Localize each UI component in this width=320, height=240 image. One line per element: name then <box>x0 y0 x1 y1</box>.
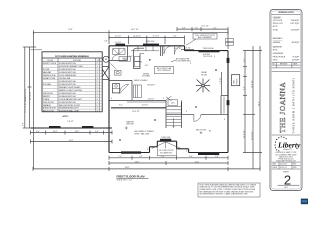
svg-text:FIREPL: FIREPL <box>237 78 239 84</box>
top exterior wall <box>109 45 185 47</box>
svg-text:CEILING FAN: CEILING FAN <box>59 77 71 80</box>
top wall jog <box>184 46 186 51</box>
svg-text:DWN: DWN <box>293 167 296 169</box>
left vertical dimension chains (wing) <box>23 32 43 169</box>
svg-text:PANTRY: PANTRY <box>43 95 51 98</box>
svg-text:EXTERIOR PENDANT LIGHT: EXTERIOR PENDANT LIGHT <box>59 65 84 68</box>
stoop pad <box>157 147 176 156</box>
svg-text:BED RM: BED RM <box>127 124 134 126</box>
svg-text:1: 1 <box>97 108 98 110</box>
svg-text:PENDANT LIGHT ISLAND: PENDANT LIGHT ISLAND <box>59 86 81 89</box>
svg-text:$: $ <box>186 111 187 113</box>
patio door note box <box>186 33 217 45</box>
svg-text:2'-5": 2'-5" <box>195 27 199 29</box>
bottom wall master section <box>109 152 150 154</box>
svg-text:14'-10 1/2": 14'-10 1/2" <box>133 36 142 38</box>
extension lines from wall corners <box>108 34 110 44</box>
svg-text:7'-0": 7'-0" <box>118 156 122 158</box>
svg-text:1 BULB BATHROOM LIGHT: 1 BULB BATHROOM LIGHT <box>59 98 83 101</box>
svg-text:FLUSH MOUNT LED: FLUSH MOUNT LED <box>59 72 77 74</box>
svg-text:AT 8" VERSION: AT 8" VERSION <box>158 69 172 72</box>
svg-text:6'-8": 6'-8" <box>161 156 165 158</box>
ceiling fan <box>196 79 210 93</box>
right exterior wall <box>227 51 229 153</box>
bottom wall bedroom section <box>189 152 228 154</box>
liberty homes logo <box>275 136 301 151</box>
svg-text:13'-11 1/2": 13'-11 1/2" <box>252 131 254 140</box>
laundry label box <box>119 57 131 62</box>
svg-text:2: 2 <box>97 84 98 86</box>
svg-text:6'-6": 6'-6" <box>215 156 219 158</box>
svg-text:CUSTOMER REQ: CUSTOMER REQ <box>176 60 191 62</box>
svg-text:THREE BDRM 2 BATH (TO BSMT): THREE BDRM 2 BATH (TO BSMT) <box>291 77 295 133</box>
svg-text:13'-8": 13'-8" <box>135 161 140 163</box>
svg-text:1: 1 <box>97 78 98 80</box>
svg-text:5 LED CHANDELIER: 5 LED CHANDELIER <box>59 74 77 77</box>
svg-text:MODERN BDRM LIGHT: MODERN BDRM LIGHT <box>59 108 79 110</box>
svg-text:FIXTURE: FIXTURE <box>73 60 81 62</box>
svg-text:2068: 2068 <box>123 60 127 62</box>
svg-text:FLUSH MOUNT LED: FLUSH MOUNT LED <box>59 84 77 86</box>
svg-text:8-15-2023: 8-15-2023 <box>280 163 287 165</box>
svg-text:$: $ <box>111 98 112 100</box>
inside dim with arrows <box>181 48 194 50</box>
svg-text:2'-8 1/2": 2'-8 1/2" <box>67 121 74 123</box>
svg-text:5'-2": 5'-2" <box>139 156 143 158</box>
svg-text:KITCHEN: KITCHEN <box>142 76 151 78</box>
svg-text:TOTAL: TOTAL <box>273 29 278 32</box>
range box <box>135 62 140 67</box>
svg-text:FLUSH MOUNT LED: FLUSH MOUNT LED <box>59 63 77 65</box>
svg-text:FLUSH MOUNT LED: FLUSH MOUNT LED <box>59 96 77 98</box>
stair side wall <box>181 102 183 114</box>
svg-text:6'-5": 6'-5" <box>173 36 177 38</box>
pantry walls <box>160 46 162 56</box>
svg-text:MATERIALS: MATERIALS <box>273 37 283 40</box>
svg-text:HALLWAY: HALLWAY <box>43 71 52 74</box>
svg-text:28'-8": 28'-8" <box>125 167 130 169</box>
svg-text:BASEMENT: BASEMENT <box>273 46 282 49</box>
svg-text:2: 2 <box>97 87 98 89</box>
window right wall lower <box>227 100 230 105</box>
svg-text:96 SQFT: 96 SQFT <box>293 56 300 58</box>
svg-text:2: 2 <box>97 105 98 107</box>
svg-text:ROOM: ROOM <box>201 75 207 77</box>
svg-text:3/16"=1'-0": 3/16"=1'-0" <box>280 167 287 169</box>
entry alcove <box>156 141 158 147</box>
window bottom wall (bedroom) <box>198 153 219 155</box>
sink box <box>135 56 140 61</box>
svg-text:ATTIC: ATTIC <box>273 25 279 28</box>
great room inner dim <box>220 72 222 95</box>
svg-text:WALK IN SHELF: WALK IN SHELF <box>134 79 149 82</box>
svg-text:8'-2": 8'-2" <box>119 105 123 107</box>
svg-text:15'-0": 15'-0" <box>195 161 200 163</box>
washer box <box>113 49 119 55</box>
svg-text:22'-8": 22'-8" <box>68 29 73 31</box>
svg-text:EXTERIOR WALL LIGHT: EXTERIOR WALL LIGHT <box>59 109 80 112</box>
svg-text:TUF DOOR: TUF DOOR <box>203 56 213 58</box>
top dimension chain right <box>177 26 228 31</box>
svg-text:4'-4": 4'-4" <box>36 131 40 133</box>
svg-text:$: $ <box>186 151 187 153</box>
svg-text:9'-1": 9'-1" <box>213 27 217 29</box>
svg-text:1ST FLOOR: 1ST FLOOR <box>273 20 283 22</box>
walk-in closet <box>134 85 142 98</box>
svg-text:1: 1 <box>97 90 98 92</box>
svg-text:16'-6": 16'-6" <box>75 131 80 133</box>
svg-text:GENERAL NOTES: GENERAL NOTES <box>278 11 294 14</box>
closet at bedroom right <box>220 96 222 115</box>
front door dark bar <box>160 139 171 142</box>
svg-text:ATTIC: ATTIC <box>63 115 69 118</box>
svg-text:Homes™: Homes™ <box>283 148 293 151</box>
top dimension chain secondary left <box>109 36 185 40</box>
window porch wall 1 <box>49 126 61 128</box>
notes rows <box>273 17 300 62</box>
svg-text:WALL MOUNTED FLUOR.: WALL MOUNTED FLUOR. <box>59 104 81 107</box>
svg-text:1: 1 <box>97 110 98 112</box>
foyer/bedroom wall <box>166 113 194 115</box>
laundry door arc <box>112 55 118 61</box>
svg-text:WATER CLOSET LIGHTING: WATER CLOSET LIGHTING <box>59 89 83 92</box>
kitchen upper cabinets <box>131 46 159 51</box>
svg-text:5'-1": 5'-1" <box>244 58 246 62</box>
svg-text:14'-0 1/2": 14'-0 1/2" <box>252 80 254 88</box>
svg-text:BED ROOM: BED ROOM <box>196 129 206 131</box>
svg-text:OPEN - RAIL SIDE: OPEN - RAIL SIDE <box>134 132 150 135</box>
window porch wall 2 <box>82 126 93 128</box>
stair shaft <box>166 96 182 128</box>
svg-text:28'-0": 28'-0" <box>259 101 261 106</box>
svg-text:5'-0": 5'-0" <box>129 56 133 58</box>
svg-text:UNFINISHED: UNFINISHED <box>273 53 284 55</box>
first floor plan label <box>117 174 149 181</box>
svg-text:1ST FLOOR LIGHTING SCHEDULE: 1ST FLOOR LIGHTING SCHEDULE <box>55 56 89 58</box>
svg-text:14'-4": 14'-4" <box>53 131 58 133</box>
svg-text:14'-9 1/2": 14'-9 1/2" <box>174 48 182 50</box>
left wall bump-out window box <box>101 67 110 80</box>
left exterior wall <box>108 46 110 153</box>
back door swing <box>175 46 183 54</box>
kitchen counter <box>134 48 145 68</box>
svg-text:8'-7 1/2": 8'-7 1/2" <box>153 36 160 38</box>
top exterior wall right part <box>185 50 229 52</box>
svg-text:FRONT PORCH: FRONT PORCH <box>273 56 286 58</box>
svg-text:4'-8": 4'-8" <box>145 65 149 67</box>
svg-text:FLEX ROOM: FLEX ROOM <box>43 102 54 104</box>
hall lower wall <box>111 107 166 109</box>
window top wall 1 <box>116 44 126 46</box>
laundry room walls <box>109 59 128 61</box>
svg-text:GARAGE: GARAGE <box>273 41 281 44</box>
electrical symbols speckle <box>111 56 225 153</box>
svg-text:TWIN 5050 A: TWIN 5050 A <box>203 47 214 50</box>
rows <box>42 64 102 109</box>
bath2 door swing <box>120 84 129 93</box>
svg-text:FLUSH MOUNT LED: FLUSH MOUNT LED <box>59 102 77 104</box>
svg-text:FOYER: FOYER <box>43 69 50 71</box>
svg-text:OF 2: OF 2 <box>284 187 288 189</box>
kitchen light dot <box>149 59 151 61</box>
dryer box <box>119 49 125 55</box>
svg-text:PHONE (608) 555-0155: PHONE (608) 555-0155 <box>278 159 294 161</box>
svg-text:1: 1 <box>97 102 98 104</box>
entry step right <box>177 148 189 150</box>
svg-text:ATTIC: ATTIC <box>273 49 279 52</box>
svg-text:9'-2": 9'-2" <box>244 86 246 90</box>
window bottom wall (master) <box>121 151 141 153</box>
svg-text:2: 2 <box>97 81 98 83</box>
info table <box>272 161 301 163</box>
svg-text:LIN SHLF: LIN SHLF <box>147 85 156 87</box>
svg-text:144 SQFT: 144 SQFT <box>292 60 300 62</box>
svg-text:$: $ <box>190 63 191 65</box>
svg-text:$: $ <box>214 56 215 58</box>
column dividers <box>57 58 59 112</box>
svg-text:AND CASEMENT: AND CASEMENT <box>198 36 213 39</box>
svg-text:FLUSH MOUNT LED: FLUSH MOUNT LED <box>59 93 77 95</box>
window right wall upper (at fireplace) <box>227 58 230 63</box>
svg-text:BACK DOOR: BACK DOOR <box>43 109 54 112</box>
svg-text:FINISHED: FINISHED <box>273 17 282 19</box>
svg-text:THE ROOM: THE ROOM <box>43 93 53 95</box>
svg-text:1: 1 <box>97 93 98 95</box>
svg-text:GARAGE: GARAGE <box>43 104 51 107</box>
svg-text:$: $ <box>224 119 225 121</box>
svg-text:FLUSH MOUNT LED: FLUSH MOUNT LED <box>59 69 77 71</box>
svg-text:4'-2": 4'-2" <box>182 27 186 29</box>
svg-text:1: 1 <box>97 69 98 71</box>
master light cross <box>125 127 128 130</box>
watermark logo bottom-right corner <box>301 199 308 205</box>
top dimension chain overall <box>34 29 229 34</box>
svg-text:7'-8 1/2": 7'-8 1/2" <box>220 77 222 84</box>
entry door swings <box>152 142 181 148</box>
svg-text:GREAT ROOM: GREAT ROOM <box>43 77 56 80</box>
right vertical dimension chains <box>243 46 262 169</box>
svg-text:FRONT PORCH: FRONT PORCH <box>43 63 57 65</box>
pantry door arc <box>164 46 172 54</box>
svg-text:BONUS ROOM: BONUS ROOM <box>43 108 56 110</box>
svg-text:2'-8": 2'-8" <box>23 122 25 126</box>
svg-text:TWIN 3050: TWIN 3050 <box>145 41 154 43</box>
svg-text:2'-8": 2'-8" <box>104 40 108 42</box>
svg-text:12'-3 1/2" AT GARAGE DOOR: 12'-3 1/2" AT GARAGE DOOR <box>24 88 27 113</box>
svg-text:ROOM: ROOM <box>47 60 53 62</box>
svg-text:4'-8 1/2": 4'-8 1/2" <box>142 105 149 107</box>
svg-text:16'-4 1/2": 16'-4 1/2" <box>201 26 209 28</box>
svg-text:13'-4 1/2": 13'-4 1/2" <box>244 130 246 138</box>
svg-text:SCALE: 3/16" = 1'-0": SCALE: 3/16" = 1'-0" <box>117 179 133 182</box>
utility circle symbol on left wall <box>103 56 109 62</box>
kitchen note box <box>155 66 174 73</box>
svg-text:$: $ <box>147 149 148 151</box>
svg-text:2: 2 <box>97 99 98 101</box>
svg-text:REVISION: REVISION <box>280 64 287 66</box>
svg-text:$: $ <box>163 98 164 100</box>
svg-text:2ND FLOOR: 2ND FLOOR <box>273 23 283 25</box>
hall upper wall <box>109 99 166 101</box>
svg-text:1: 1 <box>97 96 98 98</box>
svg-text:FIRST FLOOR PLAN: FIRST FLOOR PLAN <box>117 174 145 178</box>
svg-text:26'-10 1/2": 26'-10 1/2" <box>30 91 32 100</box>
svg-text:1248 SQFT: 1248 SQFT <box>291 20 300 22</box>
svg-text:6'-6": 6'-6" <box>189 156 193 158</box>
svg-text:REV: REV <box>293 163 296 165</box>
svg-text:LDG: LDG <box>171 102 175 104</box>
svg-text:48'-1 1/2": 48'-1 1/2" <box>131 29 139 31</box>
gas fireplace box outside right wall <box>232 75 240 86</box>
svg-text:1: 1 <box>97 66 98 68</box>
bedroom door arc <box>194 114 201 121</box>
svg-text:THE JOANNA: THE JOANNA <box>278 82 287 133</box>
porch/garage front wall <box>31 127 113 129</box>
pads outside top-right corner <box>226 39 234 42</box>
svg-text:KITCHEN: KITCHEN <box>43 84 52 86</box>
svg-text:16'-4 1/2": 16'-4 1/2" <box>132 111 140 113</box>
address lines <box>275 151 296 162</box>
svg-text:TWIN 2068: TWIN 2068 <box>161 137 170 139</box>
revision mini table <box>272 61 301 63</box>
svg-text:W STAIRS DN: W STAIRS DN <box>160 151 172 154</box>
window top wall 2 (kitchen) <box>143 44 159 46</box>
svg-text:4'-9 1/2": 4'-9 1/2" <box>184 48 191 50</box>
svg-text:LOFT SQFT: LOFT SQFT <box>290 23 299 25</box>
entry step left <box>149 147 151 153</box>
sliding patio door on top-right wall <box>199 50 220 52</box>
svg-text:FLUSH MOUNT LED: FLUSH MOUNT LED <box>59 81 77 83</box>
svg-text:4'-2 1/2": 4'-2 1/2" <box>115 36 122 38</box>
svg-text:1: 1 <box>97 75 98 77</box>
svg-text:DINING ROOM: DINING ROOM <box>43 75 56 77</box>
svg-text:4'-4": 4'-4" <box>95 131 99 133</box>
bath room wall <box>109 80 132 82</box>
svg-text:4'-8 1/2": 4'-8 1/2" <box>148 98 155 100</box>
svg-text:2: 2 <box>97 63 98 65</box>
svg-text:1: 1 <box>97 72 98 74</box>
bath vanity below wall <box>113 84 120 93</box>
bath2 right wall <box>131 81 133 101</box>
toilet fixture <box>115 70 122 75</box>
svg-text:1248 SQFT: 1248 SQFT <box>291 30 300 32</box>
row texts <box>43 63 98 113</box>
svg-text:484 SQFT: 484 SQFT <box>292 42 300 44</box>
svg-text:2 BATH: 2 BATH <box>43 98 50 101</box>
svg-text:31'-8": 31'-8" <box>69 140 74 142</box>
